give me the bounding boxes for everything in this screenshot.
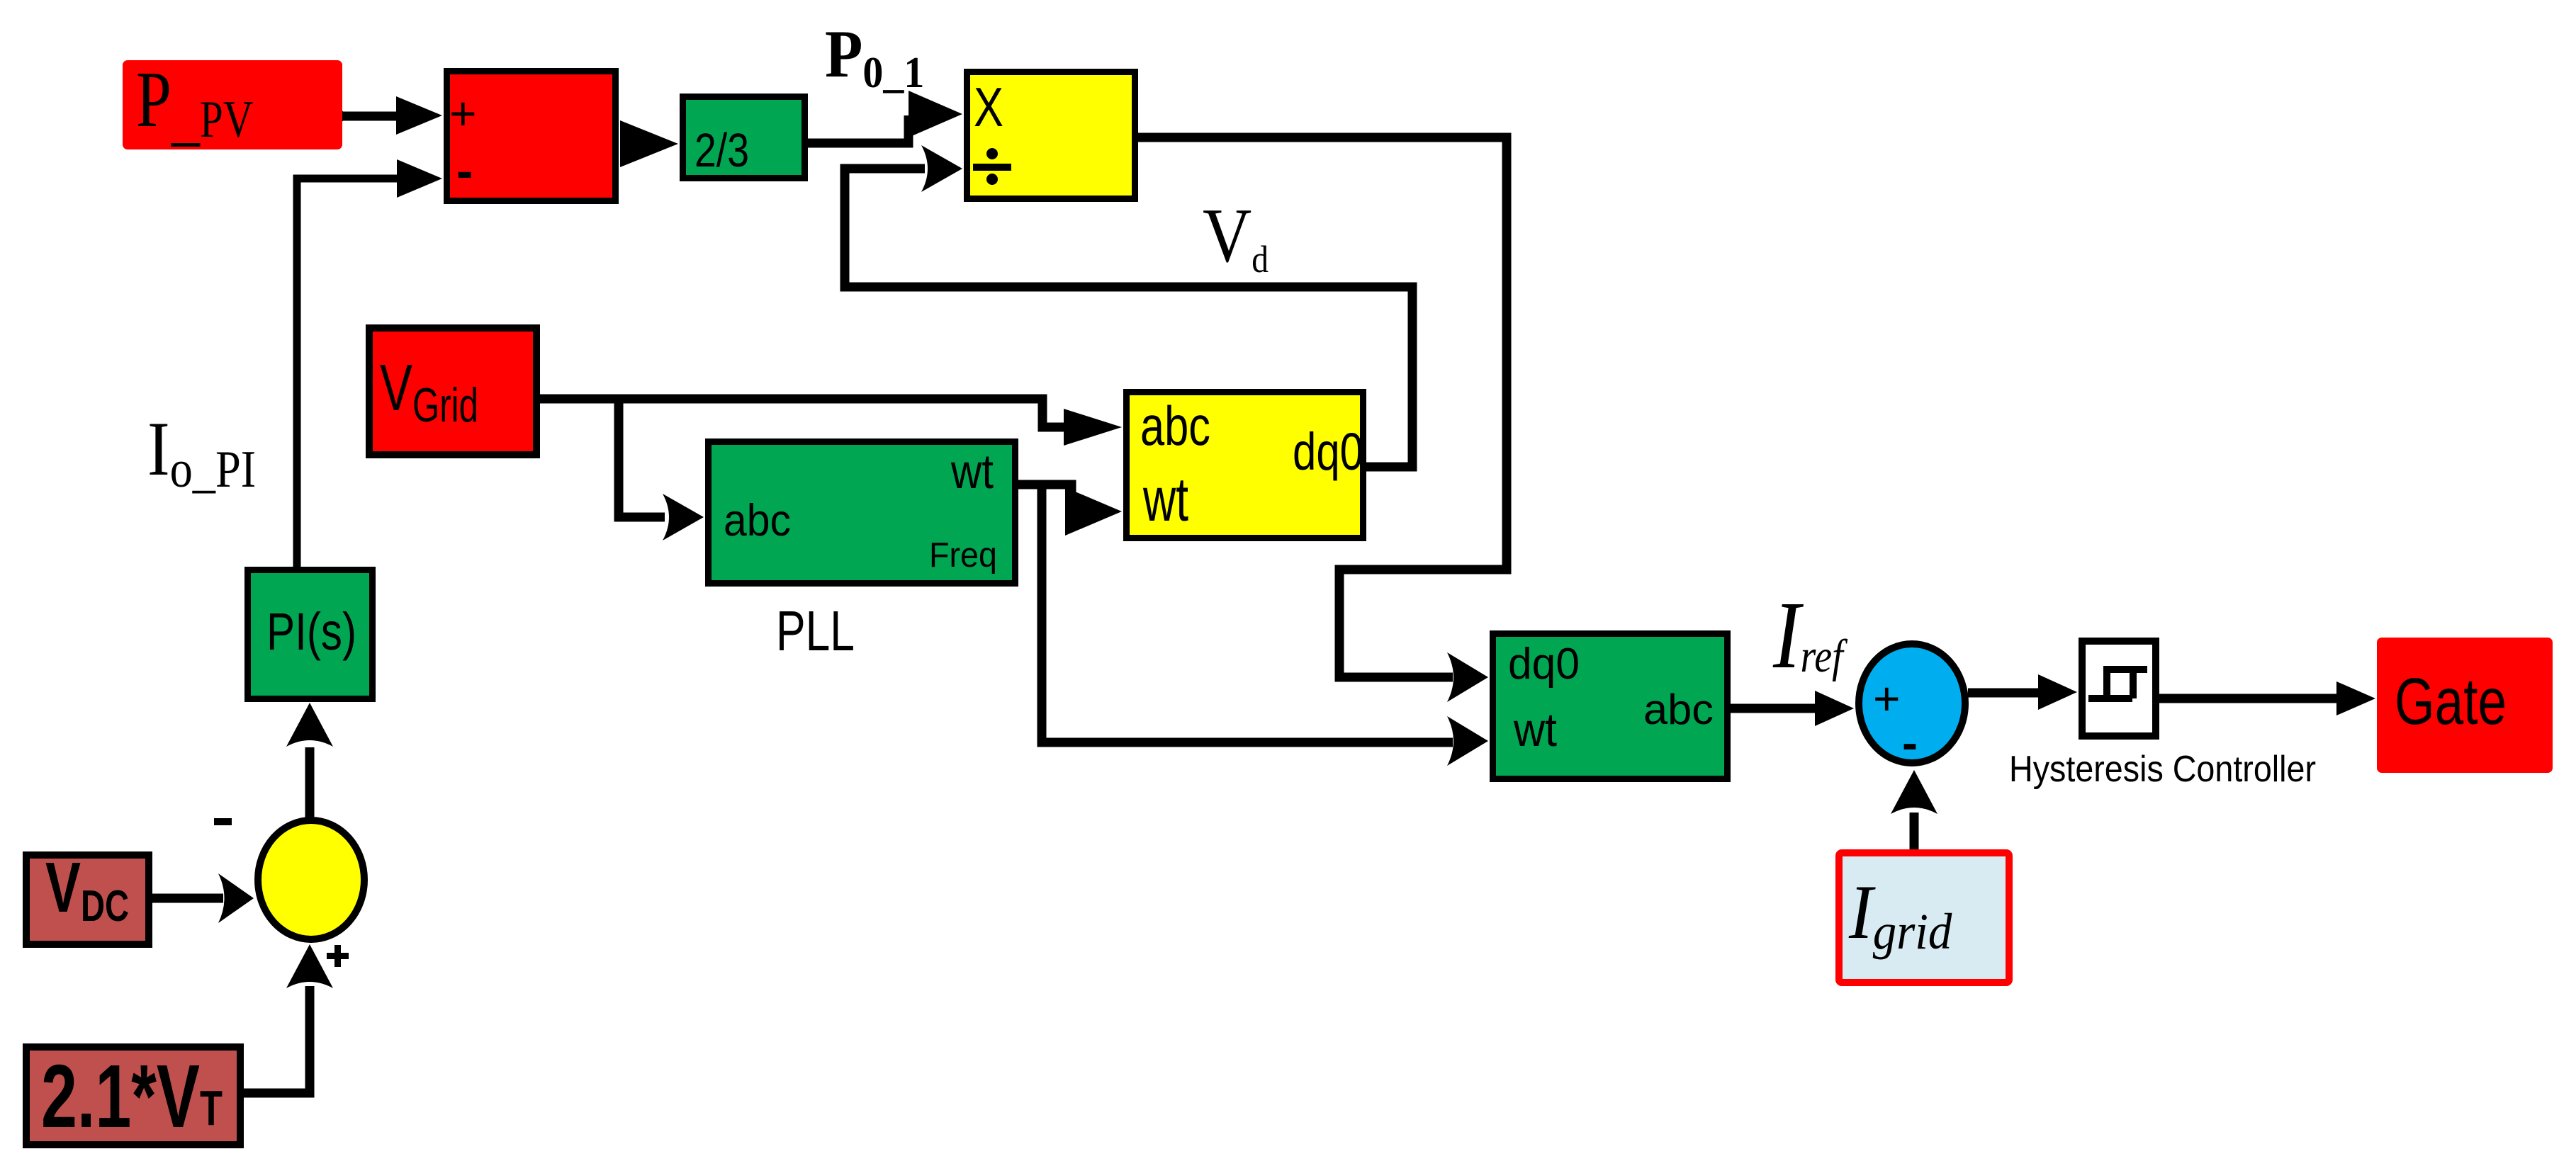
svg-text:+: + bbox=[449, 87, 477, 140]
svg-text:Hysteresis Controller: Hysteresis Controller bbox=[2009, 749, 2316, 790]
hysteresis controller relay block bbox=[2082, 641, 2156, 736]
svg-text:2/3: 2/3 bbox=[694, 124, 749, 177]
svg-text:wt: wt bbox=[1513, 703, 1557, 757]
summer block S1 bbox=[447, 72, 616, 201]
svg-text:-: - bbox=[456, 143, 473, 198]
svg-text:dq0: dq0 bbox=[1293, 422, 1363, 481]
dq0 to abc converter block (green) bbox=[1493, 634, 1728, 779]
source block I_grid bbox=[1839, 853, 2009, 983]
wire multiplier output down to dq0 input of dq0-abc converter bbox=[1138, 137, 1507, 702]
svg-text:Freq: Freq bbox=[929, 536, 997, 574]
svg-text:abc: abc bbox=[724, 496, 791, 545]
svg-text:wt: wt bbox=[950, 444, 994, 499]
wire 2.1*VT up to summing circle plus input bbox=[244, 944, 333, 1093]
svg-text:abc: abc bbox=[1643, 686, 1714, 733]
svg-text:PI(s): PI(s) bbox=[266, 602, 356, 661]
PI controller block PI(s) bbox=[248, 570, 373, 699]
wire P_PV to summer S1 plus input bbox=[332, 96, 442, 135]
label I_o_PI bbox=[147, 407, 256, 499]
label plus at summing circle bbox=[327, 945, 349, 967]
svg-text:-: - bbox=[1902, 716, 1918, 769]
svg-text:wt: wt bbox=[1142, 465, 1188, 534]
wire Vd feedback from dq0 output to divider input bbox=[845, 145, 1412, 467]
sink block Gate bbox=[2377, 638, 2553, 773]
source block V_DC bbox=[26, 848, 149, 944]
svg-text:dq0: dq0 bbox=[1508, 640, 1580, 689]
wire V_DC to summing circle bbox=[152, 873, 254, 923]
wire 2/3 gain output to multiplier X input bbox=[808, 91, 962, 143]
wire V_Grid output to abc input of abc-dq0 converter bbox=[540, 399, 1122, 446]
wire summing ellipse output to hysteresis controller bbox=[1968, 674, 2077, 710]
source block 2.1*VT bbox=[26, 1046, 240, 1146]
abc to dq0 converter block (yellow) bbox=[1127, 392, 1364, 538]
svg-text:PLL: PLL bbox=[776, 599, 855, 662]
gain block 2/3 bbox=[683, 97, 805, 179]
source block V_Grid bbox=[369, 328, 536, 455]
wire PI(s) output up to summer S1 minus input bbox=[297, 159, 442, 568]
wire V_Grid branch down to PLL abc input bbox=[619, 399, 704, 540]
label P_0_1 bbox=[825, 17, 924, 98]
summing ellipse (blue) bbox=[1859, 644, 1965, 769]
svg-text:abc: abc bbox=[1140, 395, 1210, 457]
wire PLL wt branch down to wt input of dq0-abc converter bbox=[1042, 485, 1488, 766]
multiplier-divider block X bbox=[967, 72, 1135, 199]
svg-text:+: + bbox=[1873, 672, 1901, 725]
PLL block bbox=[709, 442, 1016, 584]
svg-text:X: X bbox=[974, 76, 1003, 138]
wire I_grid up to summing ellipse minus input bbox=[1891, 770, 1937, 849]
wire PLL wt output to wt input of abc-dq0 converter bbox=[1012, 485, 1122, 536]
svg-text:Gate: Gate bbox=[2395, 664, 2507, 738]
wire hysteresis controller output to Gate bbox=[2159, 681, 2375, 715]
arrowhead summer S1 output into 2/3 gain bbox=[620, 120, 678, 167]
source block P_PV bbox=[123, 56, 342, 153]
label I_ref bbox=[1772, 582, 1848, 689]
wire summing circle output up to PI(s) bbox=[286, 703, 333, 818]
svg-text:2.1*VT: 2.1*VT bbox=[41, 1046, 223, 1146]
wire Iref from abc output to summing ellipse bbox=[1731, 691, 1854, 726]
summing circle (yellow) bbox=[258, 820, 364, 939]
label minus at summing circle bbox=[214, 818, 232, 825]
label V_d bbox=[1203, 193, 1269, 281]
